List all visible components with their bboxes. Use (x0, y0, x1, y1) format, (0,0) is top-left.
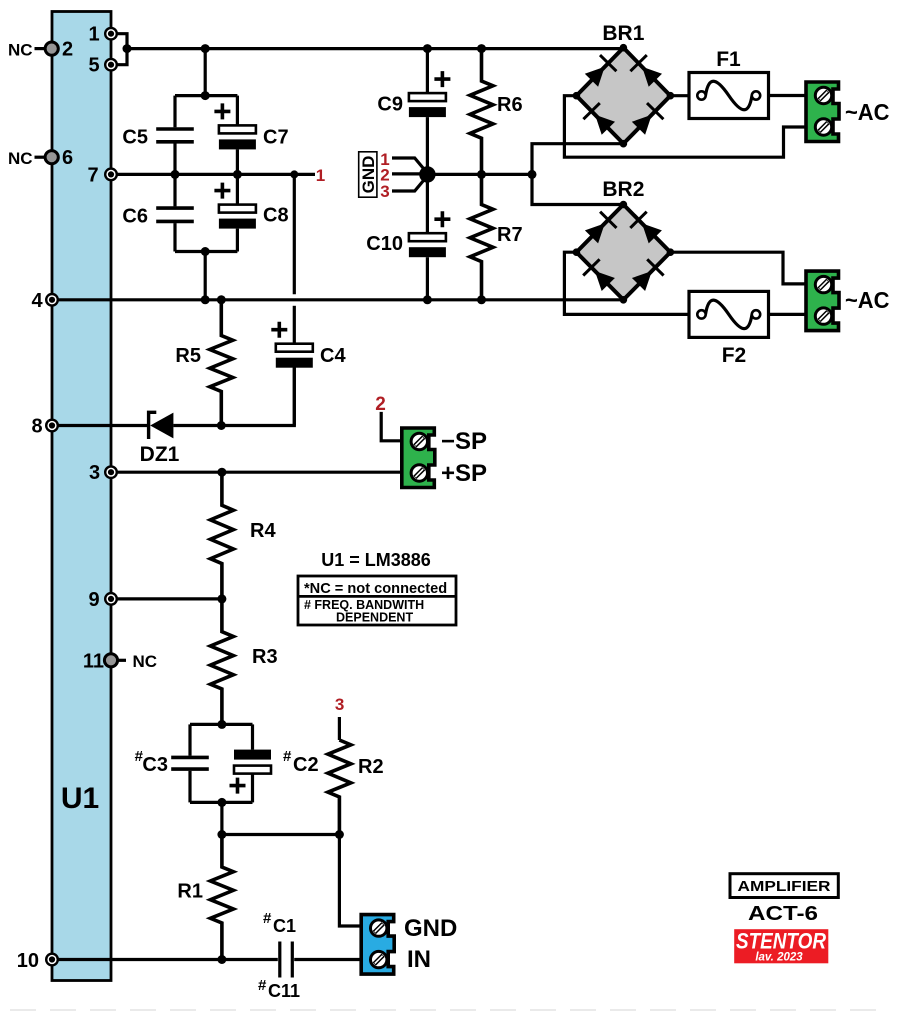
svg-text:C3: C3 (142, 754, 168, 776)
svg-text:R5: R5 (175, 345, 201, 367)
node pin10 row / R1 (217, 955, 226, 964)
wire R2 top lead from node 3 (338, 717, 341, 740)
wire NC stub pin6 (35, 156, 47, 159)
capacitor C10 (366, 174, 450, 299)
svg-text:R7: R7 (497, 224, 523, 246)
node V- rail / R7 (477, 295, 486, 304)
wire DZ1 to C4 bottom (173, 368, 294, 426)
capacitor C8 (214, 174, 288, 251)
scan artifact line (bottom) (10, 1009, 890, 1011)
svg-text:*NC = not connected: *NC = not connected (304, 581, 447, 597)
wire C6-C8 bottom bracket (175, 250, 237, 253)
svg-text:DEPENDENT: DEPENDENT (336, 611, 413, 625)
capacitor C2 (230, 724, 319, 802)
capacitor C4 (293, 306, 296, 344)
node C3-C2 bottom bracket (217, 798, 226, 807)
capacitor C9 (377, 49, 450, 175)
node mid rail / bridges (528, 170, 537, 179)
svg-text:4: 4 (31, 290, 43, 312)
wire to BR2 top vertex (532, 174, 623, 204)
wire C2C3 bottom to feedback node (220, 802, 223, 834)
wire pin9 row (111, 597, 222, 600)
title box AMPLIFIER (730, 874, 838, 898)
wire pin1-pin5 bracket (111, 34, 127, 65)
wire pin8 to DZ1 (52, 424, 149, 427)
svg-text:3: 3 (89, 462, 100, 484)
wire C5-C7 top bracket (175, 94, 237, 97)
svg-text:3: 3 (335, 695, 344, 714)
bridge rectifier BR1 (573, 22, 675, 148)
svg-text:C5: C5 (122, 127, 148, 149)
node C3-C2 top bracket (217, 720, 226, 729)
node top rail / C5-C7 (201, 44, 210, 53)
svg-text:GND: GND (359, 156, 378, 194)
node V- rail / C6-C8 (201, 295, 210, 304)
svg-text:~AC: ~AC (845, 99, 890, 125)
svg-text:BR1: BR1 (602, 22, 644, 45)
capacitor C5 (122, 96, 193, 175)
svg-text:U1: U1 (61, 782, 99, 815)
capacitor C3 (135, 724, 209, 802)
svg-text:#: # (263, 910, 272, 927)
svg-text:AMPLIFIER: AMPLIFIER (738, 879, 831, 895)
pin 5 (88, 55, 118, 77)
svg-text:F2: F2 (722, 344, 747, 367)
pin 11 (NC) (83, 650, 118, 672)
wire NC stub pin2 (35, 47, 47, 50)
resistor R5 (175, 300, 232, 426)
connector AC1 terminal block (806, 82, 839, 142)
svg-text:GND: GND (404, 915, 457, 942)
node C6-C8 bracket (201, 247, 210, 256)
wire F2 to AC2 lower terminal (769, 313, 806, 316)
svg-text:C10: C10 (366, 233, 403, 255)
svg-text:5: 5 (88, 55, 99, 77)
svg-text:BR2: BR2 (602, 178, 644, 201)
wire to GND terminal (339, 835, 361, 927)
pin 8 (31, 416, 59, 438)
svg-text:1: 1 (88, 24, 99, 46)
svg-text:lav. 2023: lav. 2023 (755, 952, 803, 964)
wire C6-C8 bracket to V- rail (204, 252, 207, 300)
wire GND connector pin 3 lead (392, 181, 424, 192)
node C5-C7 bracket (201, 91, 210, 100)
resistor R4 (210, 472, 276, 599)
svg-text:STENTOR: STENTOR (736, 929, 826, 954)
node pin3 row / R4 (217, 468, 226, 477)
logo STENTOR (734, 929, 828, 964)
svg-text:DZ1: DZ1 (140, 443, 180, 466)
svg-text:C7: C7 (263, 127, 289, 149)
node pin1/pin5 tie (123, 44, 132, 53)
svg-text:+SP: +SP (441, 460, 487, 487)
svg-text:#: # (258, 977, 267, 994)
connector SP terminal block (402, 428, 435, 488)
node pin9 row / R4-R3 (217, 594, 226, 603)
wire -SP pin 2 lead (381, 412, 402, 441)
resistor R6 (470, 49, 523, 175)
resistor R3 (210, 599, 277, 725)
wire top rail to C5-C7 bracket (204, 49, 207, 96)
wire C3-C2 bottom bracket (190, 801, 253, 804)
node R6/R7 (477, 170, 486, 179)
svg-text:#: # (283, 748, 292, 765)
node C7/C8 on pin7 row (233, 170, 242, 179)
node 1 (pin7 net) (290, 170, 298, 178)
svg-text:C9: C9 (377, 94, 403, 116)
capacitor C7 (214, 96, 288, 175)
wire GND node to R7 top rail (427, 173, 532, 176)
node top rail / C9 (423, 44, 432, 53)
node top rail / R6 (477, 44, 486, 53)
pin 9 (88, 589, 118, 611)
wire pin4 V- rail (52, 298, 623, 301)
zener diode DZ1 (140, 412, 180, 466)
wire BR1 right vertex to F1 (670, 94, 689, 97)
svg-text:1: 1 (316, 166, 325, 185)
svg-text:C8: C8 (263, 205, 289, 227)
pin 4 (31, 290, 59, 312)
wire GND connector pin 2 lead (392, 172, 421, 175)
pin 2 (NC) (45, 39, 73, 61)
svg-text:NC: NC (8, 149, 33, 168)
pin 3 (89, 462, 118, 484)
bridge rectifier BR2 (573, 178, 675, 304)
svg-text:NC: NC (133, 652, 158, 671)
svg-text:8: 8 (31, 416, 42, 438)
wire node1 down to C4 (above rail crossing) (293, 174, 296, 294)
wire feedback node row (222, 833, 340, 836)
svg-text:F1: F1 (716, 48, 741, 71)
capacitor C11 (258, 910, 300, 1001)
pin 7 (87, 164, 118, 186)
label GND pin numbers 1 2 3 (red) (380, 150, 389, 201)
svg-text:ACT-6: ACT-6 (748, 903, 818, 925)
svg-text:2: 2 (375, 394, 386, 415)
wire to BR1 bottom vertex (532, 144, 623, 175)
wire pin3 to +SP (111, 471, 402, 474)
node V- rail / C10 (423, 295, 432, 304)
node GND (star ground) (419, 166, 435, 182)
svg-text:C4: C4 (320, 345, 346, 367)
connector AC2 terminal block (806, 271, 839, 331)
svg-text:9: 9 (88, 589, 99, 611)
node feedback row / R2 (335, 830, 344, 839)
svg-text:C1: C1 (273, 916, 296, 936)
svg-text:C6: C6 (122, 206, 148, 228)
fuse F2 (689, 291, 769, 367)
fuse F1 (689, 48, 769, 119)
note box (298, 576, 456, 625)
wire C3-C2 top bracket (190, 723, 253, 726)
wire pin10 row left of C11 (52, 958, 278, 961)
svg-text:R2: R2 (358, 756, 384, 778)
svg-text:7: 7 (87, 164, 98, 186)
op-amp U1 body (LM3886) (52, 12, 111, 981)
svg-text:3: 3 (380, 182, 389, 201)
svg-text:U1 = LM3886: U1 = LM3886 (321, 550, 431, 570)
node R5 / pin8 row (217, 421, 226, 430)
svg-text:R3: R3 (252, 646, 278, 668)
wire C11 to IN terminal (294, 958, 361, 961)
label GND boxed (359, 152, 378, 197)
wire F1 to AC1 upper terminal (769, 94, 807, 97)
pin 10 (17, 950, 59, 972)
svg-text:10: 10 (17, 950, 39, 972)
pin 6 (NC) (45, 147, 73, 169)
svg-text:R6: R6 (497, 94, 523, 116)
resistor R7 (470, 174, 523, 299)
node C5/C6 on pin7 row (171, 170, 180, 179)
connector GND-IN terminal block (361, 915, 394, 975)
pin 1 (88, 24, 118, 46)
svg-text:C11: C11 (268, 981, 300, 1001)
node feedback row left (217, 830, 226, 839)
wire V+ top rail (127, 47, 623, 50)
svg-text:IN: IN (407, 946, 431, 973)
svg-text:11: 11 (83, 650, 104, 672)
resistor R2 (328, 740, 384, 835)
svg-text:6: 6 (62, 147, 73, 169)
wire BR2 AC left vertex to F2 (564, 252, 689, 314)
svg-text:C2: C2 (293, 754, 319, 776)
svg-text:~AC: ~AC (845, 287, 890, 313)
capacitor C4 (271, 322, 346, 426)
wire GND connector pin 1 lead (392, 158, 424, 169)
wire BR1 AC left vertex to AC1 lower terminal (564, 96, 806, 158)
node V- rail / R5 (217, 295, 226, 304)
svg-text:−SP: −SP (441, 428, 487, 455)
wire pin7 row to node 1 (111, 173, 315, 176)
svg-text:R1: R1 (177, 881, 203, 903)
wire NC stub pin11 (111, 659, 126, 662)
wire BR2 right vertex to AC2 upper terminal (670, 252, 806, 284)
resistor R1 (177, 835, 233, 960)
capacitor C6 (122, 174, 193, 251)
svg-text:2: 2 (62, 39, 73, 61)
svg-text:NC: NC (8, 41, 33, 60)
svg-text:R4: R4 (250, 520, 276, 542)
